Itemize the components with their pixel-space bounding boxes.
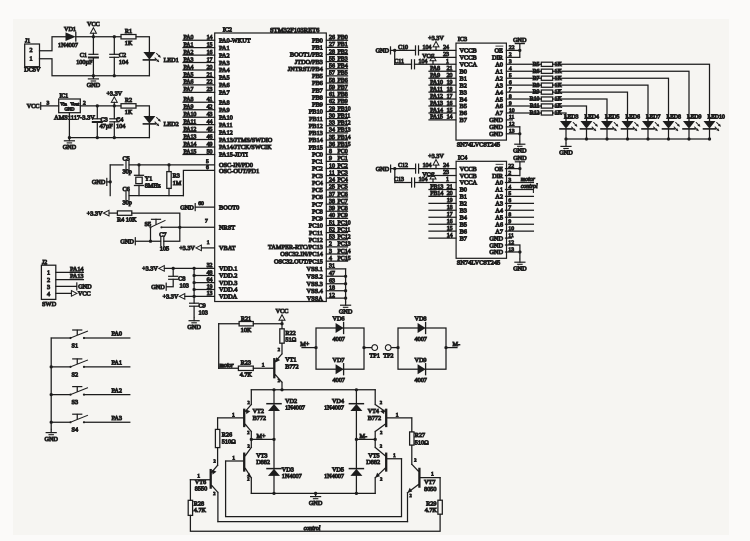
svg-text:4.7K: 4.7K bbox=[240, 372, 253, 379]
svg-text:PA2: PA2 bbox=[219, 52, 230, 59]
resistor R3 1M bbox=[167, 165, 182, 196]
svg-text:LED1: LED1 bbox=[164, 57, 179, 64]
svg-text:1: 1 bbox=[446, 59, 449, 65]
svg-text:12: 12 bbox=[508, 240, 514, 246]
svg-text:JNTRST/PB4: JNTRST/PB4 bbox=[288, 66, 324, 73]
power +3.3V bbox=[179, 240, 215, 252]
svg-text:44: 44 bbox=[207, 119, 213, 125]
svg-text:PA3: PA3 bbox=[184, 57, 194, 63]
svg-text:PC0: PC0 bbox=[312, 151, 323, 158]
svg-text:PC11: PC11 bbox=[338, 227, 351, 233]
svg-text:52: 52 bbox=[329, 227, 335, 233]
power +3.3V bbox=[87, 210, 109, 217]
svg-text:VCCB: VCCB bbox=[460, 55, 477, 62]
svg-text:50: 50 bbox=[207, 149, 213, 155]
wire bbox=[92, 74, 150, 77]
microcontroller IC2 STM32F103RET6 bbox=[215, 27, 327, 303]
svg-text:PB14: PB14 bbox=[338, 135, 351, 141]
node motor bbox=[220, 363, 235, 369]
svg-text:A4: A4 bbox=[495, 89, 504, 96]
ground bbox=[180, 201, 214, 211]
svg-text:4007: 4007 bbox=[415, 377, 427, 384]
svg-text:12: 12 bbox=[329, 293, 335, 299]
LED LED2 bbox=[143, 116, 178, 138]
svg-text:8: 8 bbox=[329, 149, 332, 155]
svg-text:19: 19 bbox=[447, 80, 453, 86]
svg-text:PB4: PB4 bbox=[338, 64, 348, 70]
svg-text:7: 7 bbox=[205, 219, 208, 225]
wire GND pins bbox=[506, 115, 521, 141]
resistor R23 4.7K bbox=[219, 360, 254, 379]
diode VD8 4007 bbox=[415, 316, 427, 344]
svg-text:PA13: PA13 bbox=[70, 273, 84, 280]
svg-text:PA6: PA6 bbox=[219, 82, 230, 89]
resistor R7 1K bbox=[506, 73, 562, 82]
svg-text:39: 39 bbox=[329, 206, 335, 212]
svg-text:24: 24 bbox=[329, 178, 335, 184]
resistor R5 1K bbox=[506, 59, 562, 68]
ground bbox=[151, 283, 166, 291]
svg-text:2: 2 bbox=[329, 242, 332, 248]
resistor R8 1K bbox=[506, 80, 562, 89]
capacitor C10 104 bbox=[398, 45, 431, 55]
svg-text:11: 11 bbox=[509, 115, 515, 121]
svg-text:PC9: PC9 bbox=[338, 213, 348, 219]
crystal Y1 8MHz bbox=[135, 165, 161, 196]
svg-text:GND: GND bbox=[489, 235, 503, 242]
svg-text:63: 63 bbox=[329, 279, 335, 285]
svg-text:28: 28 bbox=[329, 49, 335, 55]
svg-text:1: 1 bbox=[47, 270, 50, 277]
svg-text:7: 7 bbox=[509, 87, 512, 93]
svg-text:Vin: Vin bbox=[60, 101, 67, 106]
svg-text:8050: 8050 bbox=[424, 486, 436, 493]
wire GND pins bbox=[506, 233, 522, 259]
svg-text:M-: M- bbox=[453, 341, 461, 348]
svg-text:J2: J2 bbox=[42, 260, 47, 266]
svg-text:20: 20 bbox=[447, 191, 453, 197]
svg-text:GND: GND bbox=[63, 144, 77, 151]
power VCC bbox=[56, 291, 91, 298]
svg-text:PA14/JTCK/SWCIK: PA14/JTCK/SWCIK bbox=[219, 144, 272, 151]
wire bbox=[250, 390, 252, 405]
svg-text:22: 22 bbox=[508, 163, 514, 169]
power +3.3V bbox=[419, 153, 457, 169]
svg-text:PA7: PA7 bbox=[184, 87, 194, 93]
svg-text:S4: S4 bbox=[72, 427, 79, 434]
svg-text:2: 2 bbox=[214, 458, 216, 463]
svg-text:16: 16 bbox=[447, 219, 453, 225]
svg-text:LED8: LED8 bbox=[667, 115, 681, 121]
svg-text:3: 3 bbox=[508, 177, 511, 183]
svg-text:VDD.1: VDD.1 bbox=[219, 266, 237, 273]
power +3.3V bbox=[395, 174, 456, 184]
svg-text:1N4007: 1N4007 bbox=[324, 473, 344, 480]
svg-text:PC2: PC2 bbox=[312, 166, 323, 173]
svg-text:5: 5 bbox=[509, 73, 512, 79]
svg-text:BOOT1/PB2: BOOT1/PB2 bbox=[290, 52, 323, 59]
svg-text:4007: 4007 bbox=[333, 377, 345, 384]
svg-text:16: 16 bbox=[447, 101, 453, 107]
svg-text:32: 32 bbox=[207, 263, 213, 269]
svg-text:+3.3V: +3.3V bbox=[163, 294, 179, 301]
resistor R4 10K bbox=[109, 211, 137, 224]
svg-text:B1: B1 bbox=[460, 75, 467, 82]
svg-text:PA15: PA15 bbox=[430, 115, 443, 121]
diode VD5 1N4007 bbox=[324, 439, 363, 493]
wire bbox=[162, 219, 215, 228]
svg-text:45: 45 bbox=[207, 127, 213, 133]
svg-text:PC6: PC6 bbox=[338, 192, 348, 198]
svg-text:2: 2 bbox=[410, 493, 412, 498]
wire bbox=[394, 50, 396, 64]
svg-text:PA9: PA9 bbox=[184, 105, 194, 111]
capacitor C7 105 bbox=[159, 232, 169, 253]
power VCC bbox=[276, 308, 289, 324]
svg-text:47µF: 47µF bbox=[100, 123, 114, 130]
svg-text:VCC: VCC bbox=[78, 291, 91, 298]
capacitor C1 100uF bbox=[76, 37, 98, 76]
svg-text:PA1: PA1 bbox=[112, 360, 122, 367]
wire cross 1 bbox=[226, 459, 402, 517]
svg-text:PA11: PA11 bbox=[219, 122, 233, 129]
wire bbox=[386, 453, 401, 459]
svg-text:PC4: PC4 bbox=[338, 178, 348, 184]
svg-text:18: 18 bbox=[447, 205, 453, 211]
svg-text:1: 1 bbox=[262, 363, 265, 369]
svg-text:1N4007: 1N4007 bbox=[282, 473, 302, 480]
wire loop bbox=[316, 328, 364, 369]
svg-text:PB9: PB9 bbox=[312, 102, 323, 109]
svg-text:PA14: PA14 bbox=[430, 108, 443, 114]
svg-text:2: 2 bbox=[278, 378, 280, 383]
svg-text:PA13: PA13 bbox=[184, 134, 197, 140]
wire PA13 bbox=[56, 273, 84, 280]
svg-text:VSSA: VSSA bbox=[307, 295, 324, 302]
svg-text:GND: GND bbox=[376, 48, 390, 55]
transistor VT1 B772 bbox=[274, 343, 298, 390]
svg-text:100µF: 100µF bbox=[76, 59, 93, 66]
svg-text:PC5: PC5 bbox=[312, 187, 323, 194]
svg-text:A3: A3 bbox=[495, 82, 503, 89]
svg-text:8: 8 bbox=[509, 94, 512, 100]
svg-text:R23: R23 bbox=[241, 360, 251, 367]
svg-text:A4: A4 bbox=[495, 208, 504, 215]
svg-text:AMS1117-3.3V: AMS1117-3.3V bbox=[54, 115, 95, 122]
wire bbox=[553, 64, 710, 121]
svg-text:PA6: PA6 bbox=[184, 80, 194, 86]
svg-text:PB15: PB15 bbox=[338, 142, 351, 148]
svg-text:+3.3V: +3.3V bbox=[428, 35, 444, 42]
svg-text:33: 33 bbox=[329, 121, 335, 127]
svg-text:4: 4 bbox=[509, 66, 512, 72]
svg-text:A7: A7 bbox=[495, 228, 503, 235]
svg-text:510Ω: 510Ω bbox=[222, 439, 236, 446]
svg-text:PB15: PB15 bbox=[309, 144, 323, 151]
svg-text:GND: GND bbox=[513, 155, 527, 162]
svg-text:IC4: IC4 bbox=[458, 154, 467, 161]
capacitor C12 104 bbox=[398, 163, 431, 173]
svg-text:PA5: PA5 bbox=[184, 72, 194, 78]
svg-text:B5: B5 bbox=[460, 221, 467, 228]
svg-text:OE: OE bbox=[494, 48, 503, 55]
svg-text:43: 43 bbox=[207, 112, 213, 118]
ground bbox=[309, 493, 323, 507]
svg-text:A5: A5 bbox=[495, 96, 503, 103]
svg-text:VCC: VCC bbox=[87, 21, 100, 28]
svg-text:1: 1 bbox=[207, 240, 210, 246]
wire bbox=[553, 106, 587, 121]
svg-text:38: 38 bbox=[329, 199, 335, 205]
svg-text:IC1: IC1 bbox=[60, 94, 69, 100]
wire bbox=[80, 100, 121, 107]
transistor VT3 D882 bbox=[244, 443, 270, 493]
svg-text:61: 61 bbox=[329, 92, 335, 98]
svg-text:+3.3V: +3.3V bbox=[142, 266, 158, 273]
svg-text:OSC32.IN/PC14: OSC32.IN/PC14 bbox=[280, 251, 323, 258]
svg-text:GND: GND bbox=[151, 284, 165, 291]
svg-text:GND: GND bbox=[180, 204, 194, 211]
svg-text:A1: A1 bbox=[495, 187, 503, 194]
svg-text:C7: C7 bbox=[159, 232, 166, 239]
wire bbox=[76, 35, 121, 38]
svg-text:S3: S3 bbox=[72, 399, 79, 406]
svg-text:20: 20 bbox=[447, 73, 453, 79]
svg-text:PA0: PA0 bbox=[112, 331, 122, 338]
wire bbox=[136, 106, 149, 116]
svg-text:42: 42 bbox=[207, 105, 213, 111]
svg-text:GND: GND bbox=[489, 249, 503, 256]
svg-text:PB14: PB14 bbox=[430, 191, 443, 197]
svg-text:23: 23 bbox=[207, 87, 213, 93]
svg-text:Y1: Y1 bbox=[145, 175, 153, 182]
svg-text:C12: C12 bbox=[398, 163, 408, 169]
svg-text:PB11: PB11 bbox=[338, 113, 351, 119]
svg-text:PB9: PB9 bbox=[338, 99, 348, 105]
svg-text:PB7: PB7 bbox=[312, 87, 323, 94]
wire VSS bus bbox=[326, 264, 347, 302]
diode VD2 1N4007 bbox=[267, 390, 305, 440]
svg-text:B772: B772 bbox=[253, 415, 266, 422]
switch S4 bbox=[51, 414, 87, 434]
svg-text:Vout: Vout bbox=[70, 101, 79, 106]
capacitor C13 104 bbox=[394, 177, 427, 187]
svg-text:4: 4 bbox=[329, 256, 332, 262]
svg-text:PC12: PC12 bbox=[309, 237, 323, 244]
svg-text:PA3: PA3 bbox=[219, 60, 230, 67]
svg-text:1: 1 bbox=[393, 453, 396, 459]
svg-text:R8: R8 bbox=[533, 83, 540, 89]
svg-text:4: 4 bbox=[47, 291, 50, 298]
svg-text:VSS.2: VSS.2 bbox=[307, 274, 323, 281]
svg-text:21: 21 bbox=[447, 66, 453, 72]
svg-text:R7: R7 bbox=[533, 76, 540, 82]
svg-text:PC8: PC8 bbox=[312, 208, 323, 215]
svg-text:10: 10 bbox=[509, 108, 515, 114]
wire bbox=[394, 169, 396, 183]
svg-text:1N4007: 1N4007 bbox=[58, 42, 78, 49]
bus transceiver IC4 SN74LVC8T245 bbox=[456, 154, 506, 266]
svg-text:TAMPER-RTC/PC13: TAMPER-RTC/PC13 bbox=[268, 244, 323, 251]
svg-text:14: 14 bbox=[207, 35, 213, 41]
svg-text:A0: A0 bbox=[495, 62, 503, 69]
resistor R22 51 bbox=[280, 324, 297, 344]
svg-text:2: 2 bbox=[414, 457, 416, 462]
svg-text:1M: 1M bbox=[173, 180, 182, 187]
transistor VT7 8050 bbox=[408, 445, 437, 521]
svg-text:53: 53 bbox=[329, 235, 335, 241]
svg-text:B3: B3 bbox=[460, 208, 467, 215]
resistor R26 510 bbox=[215, 418, 236, 448]
svg-text:1: 1 bbox=[232, 455, 235, 461]
svg-text:104: 104 bbox=[116, 123, 125, 130]
svg-text:J1: J1 bbox=[25, 39, 30, 45]
LED LED8 bbox=[663, 115, 681, 139]
svg-text:PA13/JTMS/SWDIO: PA13/JTMS/SWDIO bbox=[219, 137, 273, 144]
svg-text:B2: B2 bbox=[460, 201, 467, 208]
svg-text:37: 37 bbox=[329, 192, 335, 198]
wire cross 2 bbox=[218, 521, 408, 523]
svg-text:R26: R26 bbox=[222, 431, 232, 438]
svg-text:A2: A2 bbox=[495, 194, 503, 201]
wire bbox=[50, 338, 53, 429]
switch S5 bbox=[145, 219, 166, 228]
wire bbox=[553, 71, 689, 121]
svg-text:M-: M- bbox=[360, 433, 368, 440]
wire bbox=[132, 213, 182, 229]
svg-text:PB6: PB6 bbox=[312, 80, 323, 87]
svg-text:PA1: PA1 bbox=[219, 45, 230, 52]
svg-text:B4: B4 bbox=[460, 214, 468, 221]
svg-text:103: 103 bbox=[180, 283, 189, 290]
svg-text:PB1: PB1 bbox=[312, 45, 323, 52]
LED LED3 bbox=[560, 115, 578, 139]
wire A2-A7 stubs bbox=[506, 191, 534, 232]
svg-text:9: 9 bbox=[508, 219, 511, 225]
svg-text:GND: GND bbox=[489, 117, 503, 124]
svg-text:3: 3 bbox=[47, 100, 50, 106]
svg-text:1: 1 bbox=[396, 412, 399, 418]
svg-text:PB14: PB14 bbox=[309, 137, 324, 144]
svg-text:GND: GND bbox=[187, 324, 201, 331]
svg-text:motor: motor bbox=[521, 177, 536, 183]
svg-text:GND: GND bbox=[489, 124, 503, 131]
svg-text:GND: GND bbox=[65, 107, 76, 112]
svg-text:VSS.4: VSS.4 bbox=[307, 288, 324, 295]
svg-text:48: 48 bbox=[207, 270, 213, 276]
svg-text:PB11: PB11 bbox=[309, 116, 323, 123]
wire bbox=[314, 346, 372, 349]
wire bbox=[68, 113, 150, 140]
svg-text:10: 10 bbox=[508, 226, 514, 232]
svg-text:2: 2 bbox=[380, 476, 382, 481]
svg-text:PC6: PC6 bbox=[312, 194, 323, 201]
svg-text:VCCB: VCCB bbox=[460, 173, 477, 180]
svg-text:1N4007: 1N4007 bbox=[285, 405, 305, 412]
svg-text:18: 18 bbox=[329, 286, 335, 292]
svg-text:DC5V: DC5V bbox=[24, 67, 41, 74]
svg-text:PA12: PA12 bbox=[184, 127, 197, 133]
power +3.3V bbox=[395, 55, 456, 65]
svg-text:PB0: PB0 bbox=[338, 35, 348, 41]
svg-text:PB12: PB12 bbox=[309, 123, 323, 130]
svg-text:9: 9 bbox=[329, 156, 332, 162]
svg-text:PA8: PA8 bbox=[184, 97, 194, 103]
svg-text:5: 5 bbox=[508, 191, 511, 197]
svg-text:56: 56 bbox=[329, 64, 335, 70]
svg-text:VD6: VD6 bbox=[333, 316, 345, 323]
svg-text:+3.3V: +3.3V bbox=[179, 245, 195, 252]
svg-text:27: 27 bbox=[329, 42, 335, 48]
svg-text:R27: R27 bbox=[415, 432, 425, 439]
svg-text:2: 2 bbox=[248, 400, 250, 405]
svg-text:35: 35 bbox=[329, 135, 335, 141]
svg-text:PA10: PA10 bbox=[430, 80, 443, 86]
regulator IC1 AMS1117-3.3V bbox=[54, 94, 95, 122]
svg-text:22: 22 bbox=[509, 45, 515, 51]
resistor R12 1K bbox=[506, 108, 562, 117]
svg-text:PC3: PC3 bbox=[338, 170, 348, 176]
svg-text:PA0: PA0 bbox=[184, 35, 194, 41]
wire PA2 bbox=[84, 387, 130, 394]
wire bbox=[253, 322, 283, 325]
node control bbox=[506, 184, 538, 193]
wire VDD pin numbers bbox=[207, 263, 213, 297]
wire bbox=[386, 412, 412, 418]
svg-text:PB5: PB5 bbox=[312, 73, 323, 80]
wire bbox=[374, 439, 376, 447]
svg-text:PB1: PB1 bbox=[338, 42, 348, 48]
svg-text:LED6: LED6 bbox=[626, 115, 640, 121]
ground bbox=[339, 302, 353, 316]
svg-text:30p: 30p bbox=[123, 169, 132, 176]
svg-text:+3.3V: +3.3V bbox=[106, 90, 122, 97]
svg-text:IC2: IC2 bbox=[223, 27, 232, 34]
resistor R1 1K bbox=[121, 28, 136, 47]
svg-text:62: 62 bbox=[329, 99, 335, 105]
svg-text:31: 31 bbox=[329, 264, 335, 270]
svg-text:NRST: NRST bbox=[219, 225, 235, 232]
svg-text:PC9: PC9 bbox=[312, 216, 323, 223]
svg-text:R21: R21 bbox=[241, 315, 251, 322]
svg-text:LED2: LED2 bbox=[164, 121, 179, 128]
svg-text:PC14: PC14 bbox=[338, 249, 351, 255]
svg-text:GND: GND bbox=[559, 150, 573, 157]
svg-text:14: 14 bbox=[447, 115, 453, 121]
power +3.3V bbox=[419, 35, 457, 51]
svg-text:19: 19 bbox=[207, 284, 213, 290]
svg-text:21: 21 bbox=[447, 184, 453, 190]
test point TP2 bbox=[383, 345, 393, 360]
svg-text:24: 24 bbox=[443, 45, 449, 51]
resistor R2 1K bbox=[121, 97, 136, 116]
svg-text:51: 51 bbox=[329, 220, 335, 226]
svg-text:B772: B772 bbox=[368, 415, 381, 422]
svg-text:PA10: PA10 bbox=[184, 112, 197, 118]
svg-text:PB2: PB2 bbox=[338, 49, 348, 55]
svg-text:2: 2 bbox=[213, 491, 215, 496]
svg-text:PB13: PB13 bbox=[430, 184, 443, 190]
svg-text:PB8: PB8 bbox=[312, 94, 323, 101]
node M+ bbox=[300, 341, 316, 348]
svg-text:R5: R5 bbox=[533, 62, 540, 68]
svg-text:PB6: PB6 bbox=[338, 78, 348, 84]
resistor R9 1K bbox=[506, 87, 562, 96]
svg-text:OE: OE bbox=[495, 166, 504, 173]
svg-text:4: 4 bbox=[508, 184, 511, 190]
wire PA0 bbox=[84, 331, 130, 338]
svg-text:GND: GND bbox=[309, 500, 323, 507]
